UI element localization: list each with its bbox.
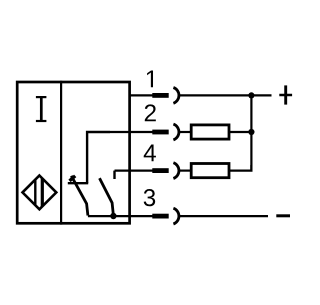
- connector X2 socket arc: [173, 124, 179, 140]
- wire: common line to pin 3: [88, 215, 153, 217]
- connector X3 socket arc: [173, 208, 179, 224]
- wire: pin 4: [115, 170, 153, 172]
- junction dot bus/R1: [248, 129, 254, 135]
- NO contact blade S2: [100, 178, 114, 214]
- wire: connector to load R2: [179, 170, 191, 172]
- label 3: [144, 189, 156, 206]
- connector X2 pin contact: [152, 130, 168, 135]
- plus terminal: [279, 85, 292, 104]
- NC contact fixed terminal: [68, 182, 88, 184]
- load resistor R2: [191, 164, 229, 178]
- wire: pin 3 to minus: [179, 215, 268, 217]
- connector X4 pin contact: [152, 168, 168, 173]
- sensor body outline: [17, 82, 129, 223]
- wire: pin 2 internal drop: [87, 132, 110, 183]
- connector X3 pin contact: [152, 214, 168, 219]
- wire: load R1 to bus: [229, 131, 253, 133]
- label I (inductive): [36, 96, 47, 122]
- connector X1 socket arc: [173, 88, 179, 104]
- wire: pin 2: [110, 131, 153, 133]
- inductive sensor symbol U1: [23, 175, 57, 210]
- NC contact tip tick: [70, 176, 76, 181]
- wire: connector to load R1: [179, 131, 191, 133]
- junction dot (common node): [110, 213, 116, 219]
- sensor body divider: [60, 81, 62, 225]
- connector X1 pin contact: [152, 93, 168, 98]
- wire: pin 1 to plus: [179, 94, 271, 96]
- label 1: [147, 71, 153, 88]
- wire: load R2 to bus corner: [229, 165, 251, 171]
- NO contact fixed terminal (pin 4 stub): [113, 171, 115, 179]
- bus wire (+) vertical: [250, 95, 252, 170]
- minus terminal: [276, 214, 290, 217]
- connector X4 socket arc: [173, 163, 179, 179]
- wire: pin 1: [130, 94, 153, 96]
- label 4: [144, 145, 156, 162]
- label 2: [145, 104, 156, 121]
- load resistor R1: [191, 125, 229, 139]
- NC contact blade S1: [71, 176, 88, 216]
- junction dot bus/pin1: [248, 92, 254, 98]
